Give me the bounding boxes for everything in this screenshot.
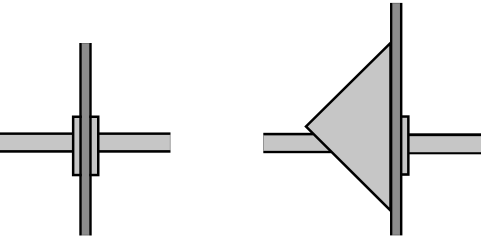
bevel cone C1 (right figure)	[306, 43, 391, 211]
horizontal shaft A1 (left figure)	[0, 132, 171, 152]
vertical shaft B2 (right figure)	[390, 3, 402, 236]
gear hub G1 (left figure)	[72, 116, 100, 177]
horizontal shaft A2 (right figure, left segment)	[263, 133, 353, 153]
vertical shaft B1 (left figure)	[79, 43, 91, 236]
horizontal shaft A3 (right figure, right segment)	[402, 133, 481, 154]
gear hub G2 (right figure)	[402, 115, 410, 176]
